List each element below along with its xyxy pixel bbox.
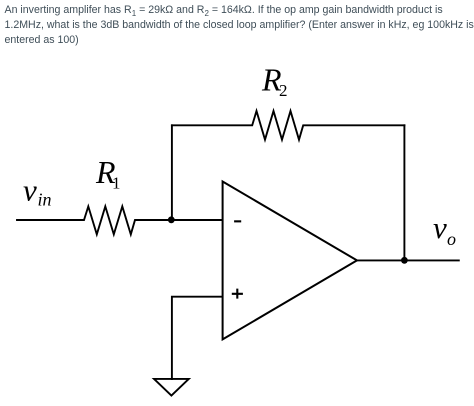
svg-text:v: v xyxy=(433,210,447,245)
svg-text:1: 1 xyxy=(112,174,121,193)
svg-text:v: v xyxy=(23,173,37,208)
svg-text:o: o xyxy=(447,229,456,249)
svg-text:2: 2 xyxy=(279,81,288,100)
svg-text:in: in xyxy=(38,190,52,210)
